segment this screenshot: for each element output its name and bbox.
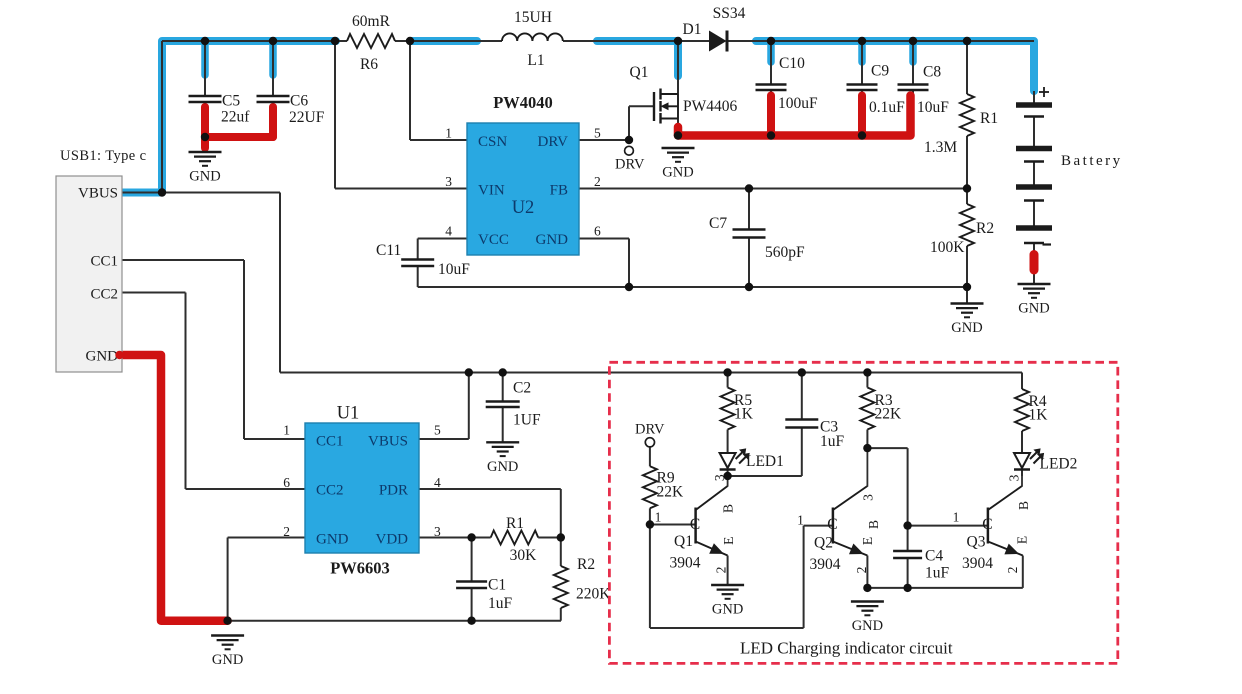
svg-text:C11: C11 [376,242,401,259]
svg-text:GND: GND [712,602,743,618]
svg-text:22K: 22K [875,406,903,423]
svg-text:L1: L1 [527,52,544,69]
svg-text:10uF: 10uF [917,99,949,116]
svg-text:SS34: SS34 [713,5,746,22]
svg-text:C1: C1 [488,577,506,594]
svg-text:100K: 100K [930,239,965,256]
svg-text:B: B [1016,501,1031,510]
svg-text:1: 1 [655,510,662,525]
svg-text:0.1uF: 0.1uF [869,99,905,116]
svg-text:Q1: Q1 [674,533,693,550]
svg-text:3904: 3904 [670,555,701,572]
svg-text:R2: R2 [577,556,595,573]
svg-text:C7: C7 [709,215,727,232]
svg-text:22K: 22K [657,484,685,501]
svg-text:1: 1 [283,423,290,438]
svg-text:1UF: 1UF [513,412,541,429]
svg-text:Q3: Q3 [967,534,986,551]
svg-text:FB: FB [550,183,568,199]
svg-text:1K: 1K [734,406,754,423]
svg-text:6: 6 [594,224,601,239]
svg-text:1: 1 [797,513,804,528]
svg-text:3: 3 [445,174,452,189]
svg-text:DRV: DRV [635,422,665,438]
svg-text:5: 5 [434,423,441,438]
svg-text:Battery: Battery [1061,153,1123,169]
svg-text:GND: GND [212,652,243,668]
svg-text:C6: C6 [290,93,308,110]
svg-text:1uF: 1uF [820,433,845,450]
svg-text:4: 4 [445,224,452,239]
svg-text:U2: U2 [512,198,535,218]
svg-text:E: E [1015,536,1030,544]
svg-text:R2: R2 [976,220,994,237]
svg-text:PDR: PDR [379,483,408,499]
svg-text:VDD: VDD [376,532,409,548]
svg-text:C10: C10 [779,55,805,72]
svg-text:2: 2 [854,567,869,574]
svg-text:3904: 3904 [810,556,841,573]
svg-text:GND: GND [86,349,119,365]
svg-text:GND: GND [189,169,220,185]
svg-text:2: 2 [594,174,601,189]
svg-text:R1: R1 [506,515,524,532]
svg-text:VCC: VCC [478,232,509,248]
svg-text:R6: R6 [360,56,378,73]
svg-text:1.3M: 1.3M [924,139,957,156]
svg-text:GND: GND [1018,301,1049,317]
svg-text:PW4040: PW4040 [493,93,553,112]
svg-text:Q2: Q2 [814,535,833,552]
svg-text:1uF: 1uF [488,595,513,612]
svg-text:100uF: 100uF [778,95,818,112]
svg-text:C: C [690,516,700,533]
svg-text:4: 4 [434,475,441,490]
svg-text:10uF: 10uF [438,261,470,278]
svg-text:CC1: CC1 [316,434,344,450]
svg-text:CSN: CSN [478,134,507,150]
svg-text:PW6603: PW6603 [330,559,390,578]
svg-text:GND: GND [487,459,518,475]
svg-text:30K: 30K [510,547,538,564]
svg-text:DRV: DRV [615,157,645,173]
svg-text:1uF: 1uF [925,565,950,582]
svg-text:USB1: Type c: USB1: Type c [60,148,147,164]
svg-text:R1: R1 [980,110,998,127]
svg-text:1K: 1K [1029,407,1049,424]
svg-text:GND: GND [536,232,569,248]
svg-text:GND: GND [662,165,693,181]
svg-text:22UF: 22UF [289,109,325,126]
svg-text:C2: C2 [513,380,531,397]
svg-text:VBUS: VBUS [78,186,118,202]
svg-text:CC1: CC1 [90,254,118,270]
svg-text:DRV: DRV [538,134,569,150]
svg-text:C5: C5 [222,93,240,110]
svg-text:PW4406: PW4406 [683,98,738,115]
svg-text:15UH: 15UH [514,9,552,26]
svg-text:LED Charging indicator circuit: LED Charging indicator circuit [740,639,953,658]
svg-text:3904: 3904 [962,555,993,572]
svg-text:C8: C8 [923,64,941,81]
svg-text:2: 2 [1005,567,1020,574]
svg-text:1: 1 [445,126,452,141]
svg-text:CC2: CC2 [90,287,118,303]
svg-text:GND: GND [852,618,883,634]
svg-text:2: 2 [283,524,290,539]
svg-text:5: 5 [594,126,601,141]
svg-text:LED2: LED2 [1040,456,1078,473]
svg-text:6: 6 [283,475,290,490]
svg-text:GND: GND [316,532,349,548]
svg-text:VIN: VIN [478,183,505,199]
svg-text:C9: C9 [871,63,889,80]
svg-text:C4: C4 [925,548,943,565]
svg-text:U1: U1 [337,404,360,424]
svg-text:1: 1 [953,510,960,525]
svg-text:560pF: 560pF [765,244,805,261]
svg-text:60mR: 60mR [352,13,391,30]
svg-text:3: 3 [434,524,441,539]
svg-text:Q1: Q1 [630,64,649,81]
svg-text:E: E [721,537,736,545]
svg-text:C: C [982,516,992,533]
svg-text:LED1: LED1 [746,453,784,470]
svg-text:VBUS: VBUS [368,434,408,450]
svg-text:2: 2 [714,567,729,574]
svg-text:3: 3 [1007,474,1022,481]
svg-text:B: B [866,520,881,529]
svg-text:CC2: CC2 [316,483,344,499]
svg-text:B: B [721,504,736,513]
svg-text:E: E [860,537,875,545]
svg-text:22uf: 22uf [221,109,250,126]
svg-text:220K: 220K [576,586,611,603]
svg-text:D1: D1 [683,21,702,38]
svg-text:3: 3 [861,494,876,501]
svg-text:GND: GND [951,320,982,336]
svg-text:C: C [827,516,837,533]
